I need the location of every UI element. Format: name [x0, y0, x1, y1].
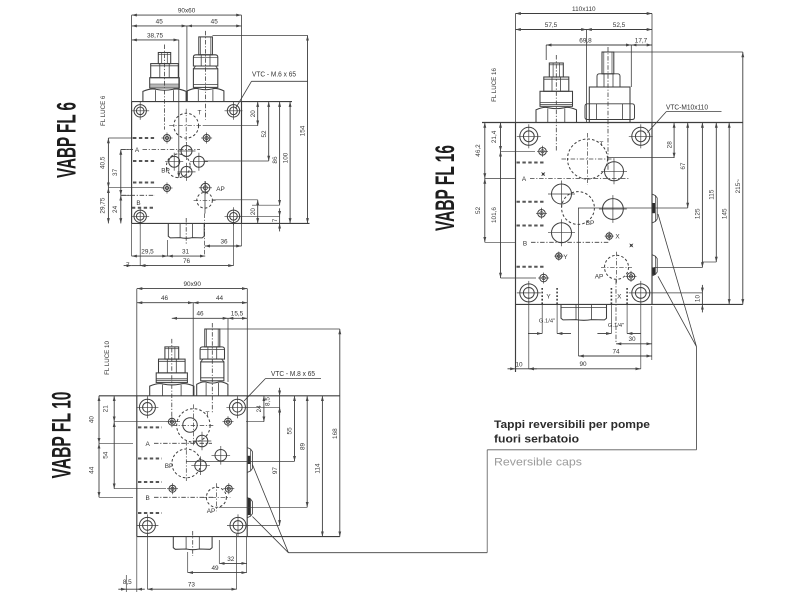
- note connector vertical: [486, 450, 488, 553]
- FL6 dim 90x60: [132, 14, 242, 16]
- svg-text:A: A: [145, 441, 150, 448]
- FL16 dim 10 right bottom: [701, 285, 703, 293]
- FL10 dim 168: [339, 329, 341, 537]
- svg-text:8,5: 8,5: [265, 397, 272, 406]
- FL6 center cluster holes: [181, 146, 192, 157]
- svg-text:AP: AP: [207, 508, 216, 515]
- FL10 bottom hex plug: [173, 537, 212, 550]
- FL16 hole right of T: [605, 162, 624, 181]
- FL10 bolt hole top-left: [139, 399, 155, 415]
- FL10 reversible cap 2: [247, 498, 252, 518]
- FL6 dim 52: [268, 102, 270, 161]
- svg-text:T: T: [600, 141, 604, 148]
- FL10 port BP dashed circle: [172, 449, 201, 478]
- FL16 bottom hex plug: [561, 304, 607, 320]
- svg-text:154: 154: [300, 125, 307, 136]
- FL16 port AP dashed circle: [605, 255, 629, 279]
- FL6 bolt hole top-right: [227, 105, 239, 117]
- svg-text:A: A: [135, 147, 140, 154]
- svg-text:40,5: 40,5: [100, 156, 107, 169]
- svg-text:52: 52: [475, 206, 482, 214]
- svg-text:AP: AP: [216, 186, 225, 193]
- svg-text:44: 44: [89, 466, 96, 474]
- FL16 reversible cap 1: [652, 194, 657, 223]
- svg-text:45: 45: [156, 18, 164, 25]
- svg-text:8,5: 8,5: [123, 579, 132, 586]
- FL6 port AP dashed circle: [197, 193, 213, 209]
- FL6 dim chain 29,75: [107, 188, 109, 224]
- FL16 dim 67: [687, 123, 689, 209]
- FL16 dim 74: [579, 355, 652, 357]
- FL16 dim 69,8 17,7: [546, 44, 631, 46]
- svg-text:28: 28: [666, 141, 673, 149]
- svg-text:46: 46: [196, 311, 204, 318]
- FL16 dim 28: [673, 123, 675, 159]
- svg-text:15,5: 15,5: [231, 311, 244, 318]
- svg-text:Y: Y: [563, 254, 568, 261]
- FL16 relief valve right locknut: [597, 74, 620, 87]
- svg-text:B: B: [523, 240, 527, 247]
- svg-text:VABP FL 16: VABP FL 16: [430, 145, 460, 231]
- svg-text:37: 37: [112, 168, 119, 176]
- svg-text:VTC - M.8 x 65: VTC - M.8 x 65: [271, 371, 315, 378]
- FL16 dim 215~: [742, 52, 744, 304]
- svg-text:40: 40: [89, 416, 96, 424]
- svg-text:Reversible caps: Reversible caps: [494, 457, 583, 469]
- FL16 node A line: [485, 178, 516, 180]
- FL16 port holes: [539, 148, 547, 156]
- FL10 dim 32: [219, 562, 246, 564]
- svg-text:X: X: [615, 234, 620, 241]
- svg-text:55: 55: [287, 427, 294, 435]
- FL6 dim 29,5: [132, 255, 168, 257]
- FL16 Y port: [556, 253, 562, 259]
- svg-text:110x110: 110x110: [572, 6, 596, 13]
- svg-text:90x90: 90x90: [183, 281, 201, 288]
- FL6 extension line valve top: [213, 34, 308, 36]
- FL16 dim chain 21,4: [500, 123, 502, 152]
- FL6 port T dashed circle: [174, 113, 199, 138]
- FL6 dim 76: [140, 265, 233, 267]
- FL16 bolt hole top-left: [520, 127, 538, 145]
- FL10 center cluster holes: [196, 435, 208, 447]
- FL6 dim 7 right bottom: [279, 208, 281, 216]
- FL16 dim chain 101,6: [500, 151, 502, 278]
- FL10 dim 24: [263, 396, 265, 422]
- FL6 bolt hole bottom-left: [134, 210, 146, 222]
- svg-text:74: 74: [612, 348, 620, 355]
- FL10 reversible cap 1: [247, 448, 252, 473]
- FL10 valve division line: [192, 303, 194, 396]
- svg-text:24: 24: [256, 405, 263, 413]
- FL10 relief valve left: [150, 384, 194, 396]
- svg-text:125: 125: [695, 208, 702, 219]
- svg-text:67: 67: [680, 162, 687, 170]
- FL16 valve body plate: [482, 122, 743, 124]
- FL6 dim 31: [168, 255, 206, 257]
- FL6 dim chain 24: [120, 195, 122, 223]
- svg-text:49: 49: [211, 565, 219, 572]
- svg-text:10: 10: [515, 362, 523, 369]
- svg-text:17,7: 17,7: [635, 37, 648, 44]
- svg-text:100: 100: [282, 152, 289, 163]
- FL6 dim 36: [205, 245, 242, 247]
- FL16 dim 110x110: [516, 13, 653, 15]
- svg-text:VTC-M10x110: VTC-M10x110: [666, 105, 708, 112]
- FL16 dim 145: [728, 123, 730, 305]
- svg-text:FL LUCE 16: FL LUCE 16: [491, 68, 498, 102]
- FL6 dim 20 right bottom: [257, 200, 259, 224]
- svg-text:VABP FL 10: VABP FL 10: [47, 392, 77, 479]
- FL6 port AP hole: [201, 183, 210, 192]
- svg-text:BP: BP: [586, 220, 595, 227]
- FL16 port T dashed circle: [568, 139, 608, 179]
- svg-text:76: 76: [183, 258, 191, 265]
- svg-text:Y: Y: [546, 294, 551, 301]
- svg-text:T: T: [206, 411, 210, 418]
- FL10 dim 46 15,5: [172, 317, 228, 319]
- FL10 small port holes: [168, 418, 175, 425]
- FL16 right hole: [603, 199, 624, 220]
- FL16 star markers: [539, 170, 547, 178]
- FL6 node A line: [108, 137, 133, 139]
- svg-text:B: B: [145, 495, 149, 502]
- FL6 port hole left B row: [164, 185, 171, 192]
- FL16 cap leader lines: [658, 214, 697, 347]
- svg-text:115: 115: [709, 189, 716, 200]
- svg-text:7: 7: [126, 262, 130, 269]
- FL10 dim 49: [188, 572, 247, 574]
- svg-text:AP: AP: [595, 274, 604, 281]
- FL16 dim 10 bottom left: [508, 368, 516, 370]
- svg-text:VTC - M.6 x 65: VTC - M.6 x 65: [252, 72, 296, 79]
- FL16 reversible cap 2: [652, 255, 657, 276]
- FL10 node B line: [99, 496, 133, 498]
- FL10 port dashed rows: [138, 426, 162, 428]
- FL16 bolt hole top-right: [632, 127, 650, 145]
- FL10 dim chain 21: [113, 396, 115, 422]
- svg-text:31: 31: [182, 249, 190, 256]
- FL10 dim 73: [147, 588, 236, 590]
- FL10 port T dashed circle: [177, 409, 210, 442]
- FL10 dim 55: [294, 396, 296, 462]
- FL6 port dashed rows: [133, 137, 156, 139]
- svg-text:54: 54: [103, 451, 110, 459]
- FL16 node B line: [485, 241, 516, 243]
- FL6 node B line: [121, 194, 155, 196]
- FL16 dim 90: [529, 368, 641, 370]
- svg-text:69,8: 69,8: [579, 37, 592, 44]
- FL10 dim 46 44: [137, 302, 193, 304]
- svg-text:A: A: [522, 176, 527, 183]
- svg-text:90: 90: [579, 361, 587, 368]
- svg-text:86: 86: [272, 156, 279, 164]
- svg-text:97: 97: [272, 467, 279, 475]
- FL10 dim chain 54: [113, 422, 115, 489]
- FL10 dim 97: [279, 407, 281, 525]
- svg-text:20: 20: [250, 110, 257, 118]
- FL10 bolt hole top-right: [229, 399, 245, 415]
- FL6 dim 45 45: [132, 25, 187, 27]
- FL16 bolt hole bottom-left: [520, 284, 538, 302]
- svg-text:7: 7: [272, 218, 279, 222]
- FL16 port dashed rows: [517, 162, 546, 164]
- FL10 relief valve right: [197, 382, 228, 396]
- FL16 relief valve right stem: [602, 52, 614, 74]
- FL10 dim 8,5 bottom: [118, 588, 126, 590]
- FL16 relief valve right rect body: [589, 87, 630, 123]
- FL16 dim chain 46,2: [484, 123, 486, 179]
- svg-text:168: 168: [332, 428, 339, 439]
- svg-text:X: X: [617, 294, 622, 301]
- FL10 node A line: [99, 442, 133, 444]
- FL6 dim 86: [279, 102, 281, 206]
- FL10 cap leader lines: [252, 465, 288, 553]
- FL6 dim 7 bottom: [124, 265, 132, 267]
- svg-text:114: 114: [315, 463, 322, 474]
- svg-text:90x60: 90x60: [178, 8, 196, 15]
- svg-text:45: 45: [211, 18, 219, 25]
- svg-text:10: 10: [695, 295, 702, 303]
- FL16 dim 30: [616, 343, 652, 345]
- FL6 dim 38,75: [132, 39, 179, 41]
- svg-text:73: 73: [188, 582, 196, 589]
- FL10 valve body plate: [99, 395, 340, 397]
- svg-text:fuori serbatoio: fuori serbatoio: [494, 434, 579, 446]
- svg-text:VABP FL 6: VABP FL 6: [52, 102, 82, 178]
- svg-text:145: 145: [721, 208, 728, 219]
- FL6 port BP dashed circle: [167, 154, 191, 178]
- FL10 bolt hole bottom-left: [139, 517, 155, 533]
- FL10 dim 90x90: [137, 288, 247, 290]
- FL6 relief valve right: [187, 88, 224, 101]
- svg-text:BP: BP: [165, 463, 174, 470]
- svg-text:T: T: [198, 110, 202, 117]
- FL16 dim chain 52: [484, 179, 486, 243]
- svg-text:29,5: 29,5: [141, 249, 154, 256]
- FL16 dim 57,5 52,5: [516, 29, 587, 31]
- FL16 X port: [606, 233, 612, 239]
- svg-text:G.1/4": G.1/4": [539, 318, 555, 324]
- FL6 dim chain 40,5: [107, 138, 109, 188]
- svg-text:29,75: 29,75: [100, 197, 107, 213]
- svg-text:20: 20: [250, 208, 257, 216]
- svg-text:101,6: 101,6: [491, 207, 498, 223]
- svg-text:44: 44: [216, 295, 224, 302]
- FL16 port BP dashed circle: [562, 192, 595, 225]
- svg-text:FL LUCE 10: FL LUCE 10: [104, 341, 111, 375]
- svg-text:BP: BP: [161, 168, 170, 175]
- FL16 relief valve left: [536, 107, 577, 122]
- FL10 dim chain 40: [98, 396, 100, 444]
- FL6 small holes row1: [164, 135, 171, 142]
- svg-text:57,5: 57,5: [545, 22, 558, 29]
- FL6 dim 100: [289, 102, 291, 224]
- svg-text:215~: 215~: [735, 179, 742, 194]
- svg-text:89: 89: [299, 443, 306, 451]
- FL16 bolt hole bottom-right: [632, 284, 650, 302]
- FL6 bolt hole top-left: [134, 105, 146, 117]
- FL6 relief valve left: [143, 89, 186, 102]
- FL10 dim 114: [321, 396, 323, 537]
- svg-text:52: 52: [261, 130, 268, 138]
- FL16 bottom port dotted lines: [541, 288, 543, 304]
- svg-text:32: 32: [227, 556, 235, 563]
- svg-text:24: 24: [112, 205, 119, 213]
- svg-text:Tappi reversibili per pompe: Tappi reversibili per pompe: [494, 419, 650, 431]
- FL6 bottom hex plug: [168, 223, 204, 238]
- FL10 dim 8,5 right: [279, 388, 281, 396]
- FL16 extension line valve top: [614, 51, 743, 53]
- FL10 dim chain 44: [98, 443, 100, 497]
- svg-text:21: 21: [103, 405, 110, 413]
- FL10 dim 89: [306, 396, 308, 508]
- FL6 dim 20 right top: [257, 102, 259, 126]
- FL16 dim 115: [715, 123, 717, 263]
- svg-text:52,5: 52,5: [613, 22, 626, 29]
- svg-text:21,4: 21,4: [491, 130, 498, 143]
- svg-text:FL LUCE 6: FL LUCE 6: [100, 95, 107, 126]
- svg-text:38,75: 38,75: [147, 32, 163, 39]
- FL16 dim 125: [701, 123, 703, 268]
- FL6 dim chain 37: [120, 150, 122, 196]
- FL16 valve division line: [586, 30, 588, 123]
- FL6 valve body plate: [132, 101, 292, 103]
- svg-text:B: B: [136, 200, 140, 207]
- FL6 bolt hole bottom-right: [227, 210, 239, 222]
- FL10 extension line valve top: [220, 328, 340, 330]
- FL10 port AP dashed circle: [206, 487, 226, 507]
- FL6 dim 154: [307, 35, 309, 223]
- svg-text:30: 30: [628, 336, 636, 343]
- note underline: [487, 449, 696, 451]
- FL16 left big holes: [552, 184, 572, 204]
- FL6 valve division line: [186, 26, 188, 102]
- svg-text:36: 36: [220, 238, 228, 245]
- svg-text:G.1/4": G.1/4": [608, 323, 624, 329]
- FL10 bolt hole bottom-right: [230, 517, 246, 533]
- svg-text:46,2: 46,2: [475, 144, 482, 157]
- svg-text:46: 46: [161, 295, 169, 302]
